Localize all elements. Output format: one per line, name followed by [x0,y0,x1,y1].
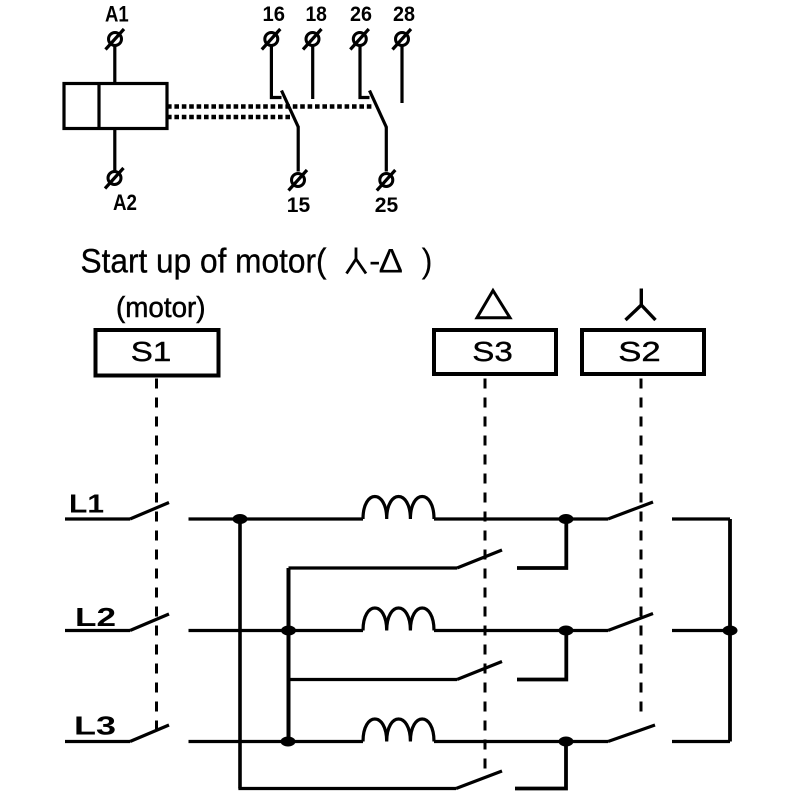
svg-text:18: 18 [305,2,327,26]
svg-text:S3: S3 [472,336,513,367]
L1 wire to inductor [189,517,364,520]
contact blade 16-15 [282,91,299,128]
svg-text:(motor): (motor) [116,292,206,324]
svg-text:): ) [422,243,433,281]
svg-text:L2: L2 [75,602,116,632]
S3 contact blade 1 [457,550,502,568]
terminal 15 [289,170,308,191]
star symbol in title [347,248,367,274]
L3 wire inductor to junction [434,740,566,743]
svg-text:A2: A2 [113,190,137,215]
wire blade to terminal 25 [385,127,388,172]
svg-text:15: 15 [287,193,310,217]
junction dot L2 right [559,626,574,636]
svg-text:L3: L3 [74,711,116,741]
wire blade to terminal 15 [297,127,300,172]
wire terminal 28 [400,46,403,104]
switch box S2 [582,330,704,374]
svg-text:16: 16 [263,2,286,26]
S1 contact blade L3 [130,725,169,742]
svg-text:26: 26 [350,2,372,26]
wire terminal 18 [311,46,314,100]
L2 wire to inductor [189,629,364,632]
L3 wire left segment [65,740,130,743]
wire delta link 3 right [515,742,566,789]
terminal 16 [262,29,281,50]
junction dot L3 right [559,737,574,747]
svg-text:S2: S2 [618,336,661,367]
delta symbol above S3 [477,291,510,318]
wire delta link 2 left [289,678,458,681]
S2 contact blade L1 [608,502,653,519]
terminal 25 [377,170,396,191]
svg-text:Start up of motor(: Start up of motor( [81,243,327,281]
switch box S1 [96,330,219,376]
dashed control line S2 [640,379,643,716]
terminal A2 [105,168,124,189]
S3 contact blade 3 [456,771,502,789]
contact blade 26-25 [370,91,387,128]
wire A1 to coil [113,46,116,84]
inductor winding L2 [363,608,434,631]
S1 contact blade L1 [130,503,169,520]
wire delta link 1 right [517,519,566,568]
svg-text:Δ: Δ [379,243,404,281]
wire delta link 3 left (bottom run) [238,787,456,790]
wire L3 junction to S2 contact [566,740,608,743]
wire L2 to right rail [672,629,730,632]
right rail [728,519,732,742]
svg-text:S1: S1 [131,336,172,367]
svg-text:L1: L1 [69,489,104,519]
mechanical linkage dotted line upper [167,104,372,108]
S2 contact blade L2 [608,614,653,631]
terminal 26 [350,29,369,50]
L1 wire inductor to junction [434,517,566,520]
left rail wire [238,519,242,789]
wire coil to A2 [113,129,116,172]
junction dot L2 delta link [281,626,296,636]
wire L3 to right rail [672,740,730,743]
L2 wire inductor to junction [434,629,566,632]
terminal 18 [303,29,322,50]
L3 wire to inductor [189,740,364,743]
svg-text:A1: A1 [105,1,129,26]
junction dot L3 delta link [281,737,296,747]
wire terminal 26 to contact [360,46,370,98]
dashed control line S3 [484,379,487,772]
junction dot right rail [723,626,738,636]
terminal 28 [393,29,412,50]
junction dot L1 right [559,514,574,524]
svg-text:28: 28 [393,2,415,26]
svg-text:25: 25 [375,193,398,217]
star symbol above S2 [626,289,656,321]
dashed control line S1 [155,379,158,730]
relay coil K1 [64,84,167,129]
switch box S3 [434,330,556,374]
wire terminal 16 to contact [271,46,281,98]
wire L1 junction to S2 contact [566,517,608,520]
junction dot L1 left rail [233,514,248,524]
inductor winding L3 [363,719,434,742]
delta link vertical x288 [287,568,291,742]
wire L2 junction to S2 contact [566,629,608,632]
S3 contact blade 2 [457,662,502,680]
L2 wire left segment [65,629,130,632]
terminal A1 [106,29,125,50]
S1 contact blade L2 [130,614,169,631]
mechanical linkage dotted line lower [167,115,290,119]
wire delta link 1 left [289,566,458,569]
wire L1 to right rail [672,517,730,520]
L1 wire left segment [65,517,130,520]
wire delta link 2 right [517,631,566,680]
inductor winding L1 [363,497,434,520]
S2 contact blade L3 [608,725,655,742]
